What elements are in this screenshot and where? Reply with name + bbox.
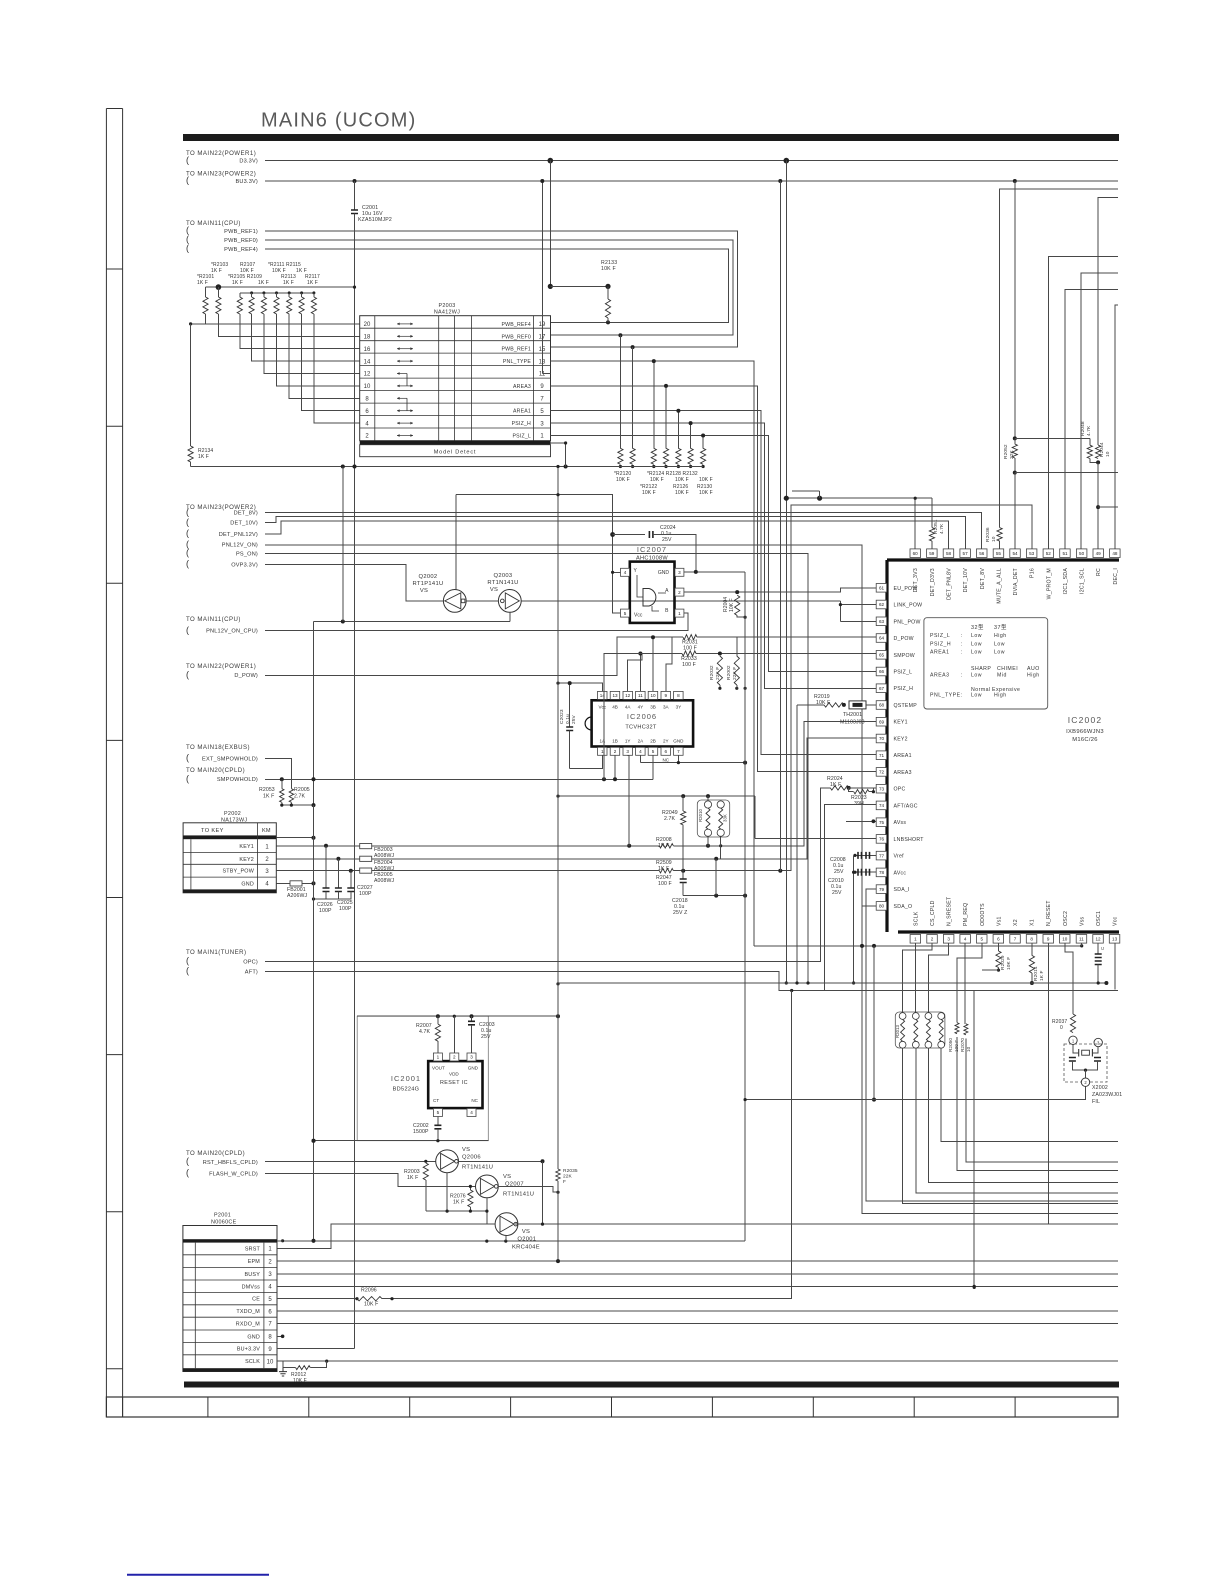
wire bbox=[569, 683, 571, 727]
resistor bbox=[717, 656, 722, 685]
wire bbox=[251, 293, 253, 297]
resistor bbox=[824, 703, 844, 707]
wire pin5 jog down bbox=[957, 943, 982, 1023]
svg-text:SCLK: SCLK bbox=[245, 1359, 260, 1365]
svg-text:10K F: 10K F bbox=[816, 700, 830, 706]
wire bbox=[265, 545, 862, 946]
junction bbox=[652, 465, 655, 468]
svg-text:PS_ON): PS_ON) bbox=[236, 551, 258, 557]
wire bbox=[314, 621, 510, 623]
wire bbox=[1031, 943, 1033, 955]
IC2002 pin 60 bbox=[910, 549, 921, 558]
svg-text:10K F: 10K F bbox=[675, 477, 689, 483]
resistor bbox=[901, 1019, 905, 1041]
junction bbox=[973, 1286, 976, 1289]
svg-text:2: 2 bbox=[678, 590, 681, 595]
resistor bbox=[357, 1297, 382, 1301]
svg-text:RESET IC: RESET IC bbox=[440, 1080, 468, 1086]
IC2002 pin 6 bbox=[993, 935, 1004, 944]
svg-text:100 F: 100 F bbox=[658, 881, 672, 887]
IC2002 pin 3 bbox=[943, 935, 954, 944]
junction bbox=[681, 869, 685, 873]
svg-text:IXB966WJN3: IXB966WJN3 bbox=[1066, 729, 1104, 735]
wire bbox=[505, 1235, 507, 1241]
junction bbox=[718, 652, 722, 656]
svg-text:55: 55 bbox=[996, 551, 1002, 556]
svg-text:A008WJ: A008WJ bbox=[374, 853, 395, 859]
capacitor bbox=[1095, 954, 1102, 958]
wire bbox=[276, 870, 659, 872]
resistor bbox=[926, 1019, 930, 1041]
IC2002 pin 76 bbox=[876, 835, 887, 844]
wire bbox=[684, 588, 876, 592]
junction bbox=[312, 1240, 315, 1243]
svg-text:8: 8 bbox=[1030, 937, 1033, 942]
IC2002 pin 48 bbox=[1110, 549, 1121, 558]
resistor bbox=[1096, 445, 1101, 458]
svg-text:X2: X2 bbox=[1013, 919, 1019, 926]
wire x786 from D3.3V bbox=[785, 161, 787, 983]
svg-text:High: High bbox=[994, 633, 1007, 639]
svg-text:6: 6 bbox=[997, 937, 1000, 942]
svg-text:57: 57 bbox=[963, 551, 969, 556]
junction bbox=[817, 496, 822, 501]
svg-text:(: ( bbox=[186, 956, 189, 966]
wire bbox=[1085, 1070, 1087, 1078]
wire bbox=[737, 616, 745, 618]
wire bbox=[558, 683, 602, 691]
svg-text:KEY2: KEY2 bbox=[239, 857, 254, 863]
IC2002 pin 71 bbox=[876, 751, 887, 760]
svg-text:VOUT: VOUT bbox=[432, 1066, 445, 1071]
junction bbox=[872, 944, 876, 948]
svg-text:DET_PNL8V: DET_PNL8V bbox=[946, 568, 952, 600]
svg-text:PWB_REF4): PWB_REF4) bbox=[224, 247, 258, 253]
wire bbox=[515, 1223, 1118, 1225]
wire bbox=[265, 513, 981, 549]
svg-text:R2013: R2013 bbox=[895, 1025, 900, 1038]
svg-text:4: 4 bbox=[639, 749, 642, 754]
IC2007 pin 3 bbox=[675, 568, 684, 576]
svg-text:DET_10V): DET_10V) bbox=[230, 520, 258, 526]
IC2002 pin 49 bbox=[1093, 549, 1104, 558]
svg-text:P16: P16 bbox=[1030, 568, 1036, 578]
wire bbox=[696, 571, 745, 573]
svg-text:75: 75 bbox=[879, 820, 885, 825]
junction bbox=[470, 1014, 474, 1018]
svg-text::: : bbox=[961, 673, 963, 679]
resistor bbox=[468, 1190, 473, 1207]
resistor bbox=[1087, 445, 1092, 458]
junction gnd rail x354 bbox=[353, 465, 357, 469]
junction bbox=[778, 869, 782, 873]
IC2007 pin 1 bbox=[675, 609, 684, 617]
svg-text:13: 13 bbox=[612, 693, 618, 698]
IC2002 pin 70 bbox=[876, 734, 887, 743]
junction D3.3V / x550 drop bbox=[548, 158, 554, 164]
svg-text:10K F: 10K F bbox=[699, 477, 713, 483]
wire bbox=[754, 796, 756, 839]
wire bbox=[1065, 290, 1118, 549]
wire bbox=[325, 846, 327, 888]
svg-text:PWB_REF0): PWB_REF0) bbox=[224, 238, 258, 244]
svg-text:54: 54 bbox=[1012, 551, 1018, 556]
junction BU3.3V / C2001 bbox=[353, 179, 357, 183]
junction bbox=[540, 179, 544, 183]
svg-text:Vref: Vref bbox=[894, 854, 905, 860]
wire bbox=[569, 737, 571, 768]
junction bbox=[676, 409, 680, 413]
svg-text:P2001: P2001 bbox=[214, 1213, 231, 1219]
junction bbox=[914, 497, 917, 500]
junction bbox=[852, 871, 855, 874]
wire bbox=[277, 314, 360, 386]
ferrite bead bbox=[360, 868, 372, 873]
junction bbox=[1080, 944, 1083, 947]
svg-text:(: ( bbox=[186, 774, 189, 784]
junction bbox=[541, 1223, 544, 1226]
IC2002 pin 63 bbox=[876, 617, 887, 626]
IC2001 pin 2 bbox=[450, 1053, 459, 1061]
IC2002 pin 74 bbox=[876, 801, 887, 810]
wire bbox=[240, 292, 314, 294]
wire bbox=[551, 423, 877, 688]
svg-text:RST_HBFLS_CPLD): RST_HBFLS_CPLD) bbox=[203, 1160, 258, 1166]
svg-text:9: 9 bbox=[665, 693, 668, 698]
svg-text:X1: X1 bbox=[1030, 919, 1036, 926]
svg-text:D_POW: D_POW bbox=[894, 636, 914, 642]
svg-text:(: ( bbox=[186, 1168, 189, 1178]
svg-text:PNL_TYPE: PNL_TYPE bbox=[503, 359, 531, 365]
junction bbox=[706, 844, 710, 848]
svg-text:69: 69 bbox=[879, 719, 885, 724]
wire bbox=[862, 906, 1118, 1214]
svg-text:1K F: 1K F bbox=[307, 280, 318, 286]
IC2002 pin 52 bbox=[1043, 549, 1054, 558]
svg-text:AVcc: AVcc bbox=[894, 870, 907, 876]
svg-text:OSC1: OSC1 bbox=[1096, 911, 1102, 926]
junction bbox=[453, 1015, 456, 1018]
wire bbox=[277, 1310, 1118, 1312]
junction bbox=[689, 421, 693, 425]
svg-text:11: 11 bbox=[638, 693, 643, 698]
junction bbox=[312, 291, 315, 294]
wire bbox=[866, 889, 1118, 1201]
wire bbox=[191, 323, 360, 325]
svg-text:BU+3.3V: BU+3.3V bbox=[237, 1347, 260, 1353]
wire bbox=[471, 1030, 473, 1053]
wire bbox=[707, 796, 709, 801]
wire bbox=[557, 984, 559, 1169]
wire bbox=[265, 240, 733, 335]
resistor bbox=[296, 1366, 311, 1370]
wire bbox=[206, 286, 355, 288]
svg-text:25V: 25V bbox=[832, 890, 842, 896]
IC2002 pin 66 bbox=[876, 667, 887, 676]
wire bbox=[206, 314, 360, 324]
svg-text:10K F: 10K F bbox=[616, 477, 630, 483]
wire bbox=[277, 1240, 283, 1242]
svg-text:SDA_O: SDA_O bbox=[894, 904, 913, 910]
capacitor bbox=[347, 888, 354, 892]
svg-text:OPC): OPC) bbox=[243, 959, 258, 965]
svg-text:High: High bbox=[994, 693, 1007, 699]
svg-text:49: 49 bbox=[1096, 551, 1102, 556]
svg-text:SMPOWHOLD): SMPOWHOLD) bbox=[217, 777, 258, 783]
svg-text:AREA1: AREA1 bbox=[930, 650, 950, 656]
junction bbox=[280, 777, 284, 781]
svg-text:10K F: 10K F bbox=[601, 266, 616, 272]
svg-text:RT1N141U: RT1N141U bbox=[503, 1192, 534, 1198]
wire bbox=[779, 990, 1118, 992]
page border left column bbox=[106, 109, 122, 1418]
svg-text:78: 78 bbox=[879, 870, 885, 875]
resistor bbox=[556, 1169, 560, 1181]
junction bbox=[973, 1285, 976, 1288]
junction bbox=[627, 844, 631, 848]
svg-text:VS: VS bbox=[522, 1229, 530, 1235]
svg-text:61: 61 bbox=[879, 586, 885, 591]
junction bbox=[189, 322, 192, 325]
resistor bbox=[688, 448, 693, 464]
wire bbox=[282, 802, 314, 805]
junction bbox=[312, 836, 316, 840]
svg-text:PNL12V_ON): PNL12V_ON) bbox=[222, 543, 258, 549]
svg-text:10K F: 10K F bbox=[642, 490, 656, 496]
wire pin10 up bbox=[652, 637, 654, 691]
svg-text:R2070: R2070 bbox=[960, 1038, 965, 1052]
wire bbox=[265, 554, 808, 984]
svg-text:1K F: 1K F bbox=[263, 794, 274, 800]
svg-text:TO MAIN18(EXBUS): TO MAIN18(EXBUS) bbox=[186, 744, 250, 751]
svg-text:IC2007: IC2007 bbox=[637, 545, 667, 554]
svg-text:EPM: EPM bbox=[248, 1259, 261, 1265]
wire bbox=[796, 705, 798, 983]
resistor bbox=[423, 1163, 428, 1180]
svg-text:VS: VS bbox=[503, 1174, 511, 1180]
wire bbox=[314, 314, 360, 423]
svg-text:3: 3 bbox=[470, 1055, 473, 1060]
IC2007 AND gate symbol bbox=[643, 589, 656, 607]
wire bbox=[853, 855, 855, 983]
IC2006 pin 8 bbox=[674, 691, 684, 699]
wire bbox=[326, 892, 351, 900]
wire bbox=[754, 945, 1082, 947]
svg-text:DET_8V: DET_8V bbox=[980, 568, 986, 589]
wire bbox=[613, 534, 645, 536]
wire bbox=[673, 721, 876, 845]
resistor R2008 on KEY1 line bbox=[659, 844, 673, 848]
wire bbox=[613, 535, 621, 573]
wire bbox=[459, 1160, 543, 1162]
svg-text:10: 10 bbox=[1105, 451, 1111, 457]
svg-text:62: 62 bbox=[879, 602, 885, 607]
wire bbox=[265, 1160, 436, 1162]
svg-text:D3.3V): D3.3V) bbox=[239, 158, 258, 164]
resistor bbox=[280, 789, 284, 803]
resistor bbox=[701, 448, 706, 464]
svg-text:2: 2 bbox=[453, 1055, 456, 1060]
junction bbox=[664, 465, 667, 468]
svg-text:KEY1: KEY1 bbox=[894, 720, 908, 726]
svg-text:TO MAIN20(CPLD): TO MAIN20(CPLD) bbox=[186, 1150, 245, 1157]
IC2006 pin 11 bbox=[636, 691, 646, 699]
top thick bar bbox=[183, 134, 1119, 141]
wire bbox=[455, 495, 457, 590]
junction bbox=[853, 854, 856, 857]
svg-text:79: 79 bbox=[879, 887, 885, 892]
resistor network R2013 bbox=[895, 1012, 945, 1048]
resistor bank element 4 bbox=[249, 297, 254, 314]
svg-text:16: 16 bbox=[364, 347, 371, 353]
wire bbox=[792, 490, 819, 492]
wire bbox=[265, 565, 444, 601]
svg-text:EXT_SMPOWHOLD): EXT_SMPOWHOLD) bbox=[202, 756, 258, 762]
IC2002 pin 80 bbox=[876, 902, 887, 911]
junction bank rail / BU rail bbox=[353, 286, 356, 289]
IC2002 pin 62 bbox=[876, 600, 887, 609]
IC2006 pin 2 bbox=[610, 747, 620, 755]
svg-text:RT1N141U: RT1N141U bbox=[487, 580, 518, 586]
junction bbox=[568, 681, 572, 685]
IC2006 pin 3 bbox=[623, 747, 633, 755]
svg-text:3A: 3A bbox=[663, 705, 670, 710]
wire bbox=[1097, 462, 1099, 548]
junction bbox=[718, 687, 721, 690]
svg-text:1K F: 1K F bbox=[658, 866, 669, 872]
junction bbox=[312, 1239, 316, 1243]
junction R2122 column / REF1 loop bbox=[631, 345, 635, 349]
junction bbox=[446, 1210, 449, 1213]
wire bbox=[619, 335, 621, 448]
wire bbox=[640, 762, 745, 764]
wire bbox=[1048, 943, 1050, 1224]
wire bbox=[551, 386, 877, 772]
junction bbox=[706, 794, 710, 798]
wire bbox=[653, 535, 696, 572]
wire bbox=[218, 314, 359, 336]
wire bbox=[998, 943, 1000, 951]
junction bbox=[664, 384, 668, 388]
wire bbox=[471, 1025, 473, 1030]
svg-text:56: 56 bbox=[979, 551, 985, 556]
wire bbox=[1014, 458, 1016, 473]
wire bbox=[437, 1016, 439, 1024]
wire bbox=[558, 795, 755, 797]
svg-text:1Y: 1Y bbox=[625, 739, 631, 744]
wire bbox=[779, 181, 781, 871]
IC2002 pin 11 bbox=[1076, 935, 1087, 944]
svg-text:13: 13 bbox=[1112, 937, 1118, 942]
svg-text:CE: CE bbox=[252, 1297, 260, 1303]
svg-text:2A: 2A bbox=[638, 739, 645, 744]
svg-text:SDA_I: SDA_I bbox=[894, 887, 910, 893]
svg-text:PNL_TYPE:: PNL_TYPE: bbox=[930, 693, 962, 699]
wire bbox=[604, 654, 682, 780]
wire bbox=[1098, 506, 1118, 508]
wire bbox=[426, 1210, 488, 1212]
svg-text:50: 50 bbox=[1079, 551, 1085, 556]
wire bbox=[265, 1174, 476, 1187]
wire bbox=[1014, 181, 1016, 444]
svg-text:PNL12V_ON_CPU): PNL12V_ON_CPU) bbox=[206, 629, 258, 635]
resistor bbox=[1029, 955, 1034, 973]
IC2002 pin 55 bbox=[993, 549, 1004, 558]
junction bbox=[281, 1239, 284, 1242]
svg-text:70: 70 bbox=[879, 736, 885, 741]
junction bbox=[602, 777, 606, 781]
thermistor TH2001 bbox=[849, 701, 866, 709]
svg-text:R2036: R2036 bbox=[985, 527, 991, 542]
wire bbox=[277, 1323, 1118, 1325]
svg-text:NC: NC bbox=[471, 1098, 478, 1103]
wire bbox=[1098, 197, 1118, 445]
wire bbox=[1114, 943, 1116, 990]
wire bbox=[314, 892, 327, 900]
junction bbox=[250, 291, 253, 294]
svg-text:1: 1 bbox=[914, 937, 917, 942]
wire bbox=[277, 1298, 357, 1300]
svg-text:1K F: 1K F bbox=[198, 454, 209, 460]
svg-text:DET_10V: DET_10V bbox=[963, 568, 969, 593]
wire bbox=[265, 788, 830, 962]
svg-text:Q2003: Q2003 bbox=[494, 573, 513, 579]
junction gnd rail x566 bbox=[564, 465, 568, 469]
capacitor bbox=[649, 531, 653, 538]
svg-text:1A: 1A bbox=[599, 739, 606, 744]
capacitor bbox=[866, 869, 870, 876]
wire bbox=[855, 854, 876, 856]
IC2006 pin 7 bbox=[674, 747, 684, 755]
svg-text:TO MAIN11(CPU): TO MAIN11(CPU) bbox=[186, 616, 241, 623]
wire bbox=[281, 779, 283, 788]
resistor bbox=[854, 790, 869, 794]
IC2002 pin 65 bbox=[876, 651, 887, 660]
resistor bbox=[676, 448, 681, 464]
junction bbox=[281, 1335, 285, 1339]
svg-text:4: 4 bbox=[470, 1110, 473, 1115]
wire bbox=[682, 871, 684, 879]
wire bbox=[437, 1041, 439, 1055]
resistor bank element 3 bbox=[237, 297, 242, 314]
junction bbox=[504, 1240, 507, 1243]
svg-text:18: 18 bbox=[364, 335, 371, 341]
resistor bbox=[929, 528, 934, 542]
wire pin9 up bbox=[666, 637, 672, 691]
IC2002 pin 7 bbox=[1010, 935, 1021, 944]
wire bbox=[1031, 973, 1033, 983]
svg-text:TO MAIN20(CPLD): TO MAIN20(CPLD) bbox=[186, 767, 245, 774]
wire bbox=[486, 1198, 488, 1225]
IC2002 pin 5 bbox=[977, 935, 988, 944]
wire bbox=[607, 286, 609, 299]
wire bbox=[277, 1335, 283, 1337]
svg-text:DMVss: DMVss bbox=[242, 1284, 260, 1290]
svg-text:1B: 1B bbox=[612, 739, 618, 744]
svg-text::: : bbox=[961, 650, 963, 656]
svg-text:I2C1_SCL: I2C1_SCL bbox=[1080, 568, 1086, 594]
wire pin5 down to SMPOWHOLD bbox=[652, 755, 654, 779]
junction bbox=[1097, 981, 1100, 984]
resistor bank element 6 bbox=[274, 297, 279, 314]
ferrite bead bbox=[360, 856, 372, 861]
svg-text:BUSY: BUSY bbox=[245, 1272, 261, 1278]
wire R2134 column bbox=[190, 324, 192, 446]
svg-text:VS: VS bbox=[490, 587, 498, 593]
svg-text:25V: 25V bbox=[834, 869, 844, 875]
svg-text:(: ( bbox=[186, 670, 189, 680]
wire bbox=[677, 411, 679, 449]
